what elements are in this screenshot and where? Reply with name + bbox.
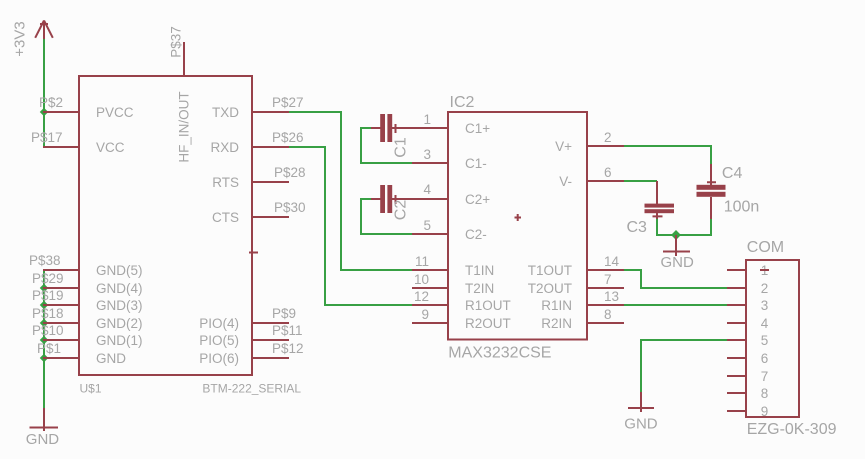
capacitor C4 <box>697 164 760 219</box>
pin P$12 PIO(6) <box>252 341 304 358</box>
connector COM EZG-0K-309 body <box>746 260 799 417</box>
svg-text:C2-: C2- <box>465 227 487 242</box>
wire C2 to C2- <box>361 199 412 234</box>
wire R1IN to COM pin3 <box>624 304 746 306</box>
svg-text:V+: V+ <box>555 139 572 154</box>
svg-text:T2IN: T2IN <box>465 281 494 296</box>
svg-text:P$18: P$18 <box>32 306 64 321</box>
svg-text:P$29: P$29 <box>32 271 64 286</box>
pin 14 T1OUT <box>587 254 624 270</box>
svg-text:P$19: P$19 <box>32 288 64 303</box>
svg-text:3: 3 <box>423 147 431 162</box>
svg-text:2: 2 <box>604 130 612 145</box>
connector pin 6 <box>727 351 768 366</box>
svg-text:R1OUT: R1OUT <box>465 298 511 313</box>
svg-text:C1-: C1- <box>465 156 487 171</box>
node junction GND(3) <box>40 301 48 309</box>
pin P$11 PIO(5) <box>252 323 303 340</box>
svg-text:RXD: RXD <box>210 140 239 155</box>
U1 pin labels right <box>199 105 239 366</box>
svg-text:8: 8 <box>604 307 612 322</box>
connector pin 7 <box>727 369 768 384</box>
svg-text:R2OUT: R2OUT <box>465 316 511 331</box>
svg-text:P$12: P$12 <box>272 341 304 356</box>
svg-text:T1IN: T1IN <box>465 263 494 278</box>
pin 5 C2- <box>412 218 448 234</box>
wire +3V3 to VCC <box>43 39 45 148</box>
pin 12 R1OUT <box>412 289 448 305</box>
node junction GND(4) <box>40 284 48 292</box>
wire V- to C3 <box>624 180 657 182</box>
svg-text:P$17: P$17 <box>31 130 63 145</box>
svg-text:P$11: P$11 <box>272 323 303 338</box>
svg-text:BTM-222_SERIAL: BTM-222_SERIAL <box>202 382 301 396</box>
svg-text:7: 7 <box>604 272 612 287</box>
svg-text:6: 6 <box>761 351 769 366</box>
ground GND right <box>624 392 658 433</box>
svg-text:13: 13 <box>604 289 619 304</box>
pin 11 T1IN <box>412 254 448 270</box>
svg-text:C1: C1 <box>393 137 410 158</box>
node junction GND(1) <box>40 336 48 344</box>
svg-text:MAX3232CSE: MAX3232CSE <box>448 345 551 362</box>
pin 3 C1- <box>412 147 448 163</box>
svg-text:COM: COM <box>747 239 784 256</box>
svg-text:C2+: C2+ <box>465 192 490 207</box>
pin 2 V+ <box>587 130 624 146</box>
U1 origin tick <box>249 252 258 254</box>
connector pin 3 <box>727 298 768 313</box>
node junction GND(2) <box>40 319 48 327</box>
capacitor C2 <box>371 185 412 220</box>
node P$2 junction <box>40 108 48 116</box>
IC2 pin labels right <box>528 139 572 331</box>
pin P$17 VCC <box>31 130 79 147</box>
pin P$28 RTS <box>252 165 306 182</box>
svg-text:P$37: P$37 <box>169 26 184 58</box>
pin 13 R1IN <box>587 289 624 305</box>
ground GND left <box>26 408 60 448</box>
pin P$37 HF antenna <box>169 26 185 76</box>
svg-text:100n: 100n <box>724 198 760 215</box>
svg-text:HF_IN/OUT: HF_IN/OUT <box>177 91 192 162</box>
pin P$1 GND <box>37 341 79 358</box>
pin 1 C1+ <box>412 112 448 128</box>
svg-text:GND: GND <box>661 254 695 271</box>
svg-text:P$27: P$27 <box>272 95 304 110</box>
svg-text:7: 7 <box>761 369 769 384</box>
svg-text:GND(3): GND(3) <box>96 298 143 313</box>
svg-text:P$38: P$38 <box>29 253 61 268</box>
pin P$9 PIO(4) <box>252 306 296 323</box>
svg-text:3: 3 <box>761 298 769 313</box>
connector pin 5 <box>727 333 768 348</box>
pin P$26 RXD <box>252 130 304 147</box>
IC IC2 MAX3232CSE body <box>448 112 587 340</box>
svg-text:+3V3: +3V3 <box>12 21 29 56</box>
svg-text:U$1: U$1 <box>80 382 102 396</box>
svg-text:PIO(6): PIO(6) <box>199 351 239 366</box>
pin 7 T2OUT <box>587 272 624 288</box>
svg-text:5: 5 <box>423 218 431 233</box>
svg-text:P$2: P$2 <box>39 95 63 110</box>
svg-text:P$9: P$9 <box>272 306 296 321</box>
wire C4 to GND junction <box>676 219 711 235</box>
power +3V3 <box>12 21 53 57</box>
node junction GND <box>40 354 48 362</box>
svg-text:GND(5): GND(5) <box>96 263 143 278</box>
svg-text:6: 6 <box>604 165 612 180</box>
connector pin 4 <box>727 316 769 331</box>
wire C3 to GND junction <box>657 219 676 235</box>
svg-text:11: 11 <box>415 254 429 269</box>
svg-text:C1+: C1+ <box>465 121 490 136</box>
svg-text:14: 14 <box>604 254 620 269</box>
svg-text:P$28: P$28 <box>274 165 306 180</box>
svg-text:2: 2 <box>761 281 769 296</box>
wire GND to COM pin5 <box>641 340 746 392</box>
pin 8 R2IN <box>587 307 624 323</box>
svg-text:PVCC: PVCC <box>96 105 134 120</box>
pin P$10 GND(1) <box>32 323 79 340</box>
svg-text:IC2: IC2 <box>450 94 475 111</box>
wire C1 to C1- <box>361 128 412 163</box>
pin 10 T2IN <box>412 272 448 288</box>
wire left GND bus <box>43 270 45 408</box>
node GND junction <box>671 230 681 240</box>
svg-text:4: 4 <box>423 182 431 197</box>
pin P$38 GND(5) <box>29 253 79 270</box>
svg-text:EZG-0K-309: EZG-0K-309 <box>747 421 837 438</box>
svg-text:P$1: P$1 <box>37 341 61 356</box>
IC U1 BTM-222 body <box>79 76 252 375</box>
connector pin 9 <box>727 404 768 419</box>
svg-text:C4: C4 <box>722 165 743 182</box>
connector pin 8 <box>727 386 768 401</box>
capacitor C1 <box>371 114 412 158</box>
svg-text:PIO(4): PIO(4) <box>199 316 239 331</box>
svg-text:9: 9 <box>421 307 429 322</box>
svg-text:GND: GND <box>96 351 126 366</box>
svg-text:T1OUT: T1OUT <box>528 263 572 278</box>
svg-text:P$10: P$10 <box>32 323 64 338</box>
IC2 origin cross <box>515 214 522 221</box>
pin P$27 TXD <box>252 95 304 112</box>
svg-text:GND: GND <box>624 416 658 433</box>
pin 4 C2+ <box>412 182 448 199</box>
svg-text:VCC: VCC <box>96 140 125 155</box>
svg-text:TXD: TXD <box>212 105 239 120</box>
wire RXD to R1OUT <box>289 147 412 305</box>
svg-text:GND: GND <box>26 431 60 448</box>
svg-text:GND(2): GND(2) <box>96 316 143 331</box>
wire TXD to T1IN <box>289 112 412 270</box>
capacitor C3 <box>627 181 675 236</box>
pin P$18 GND(2) <box>32 306 79 323</box>
svg-text:1: 1 <box>423 112 431 127</box>
connector pin 2 <box>727 281 768 296</box>
pin 6 V- <box>587 165 624 181</box>
svg-text:C3: C3 <box>627 219 648 236</box>
svg-text:T2OUT: T2OUT <box>528 281 572 296</box>
pin P$2 PVCC <box>39 95 79 112</box>
svg-text:R1IN: R1IN <box>541 298 572 313</box>
wire T1OUT to COM pin2 <box>624 270 746 288</box>
svg-text:RTS: RTS <box>212 175 239 190</box>
connector pin 1 <box>727 263 769 278</box>
svg-text:P$30: P$30 <box>274 200 306 215</box>
svg-text:PIO(5): PIO(5) <box>199 333 239 348</box>
pin P$30 CTS <box>252 200 306 217</box>
ground GND middle <box>661 235 695 271</box>
pin 9 R2OUT <box>412 307 448 323</box>
svg-text:4: 4 <box>761 316 769 331</box>
svg-text:CTS: CTS <box>212 210 239 225</box>
svg-text:GND(4): GND(4) <box>96 281 143 296</box>
svg-text:10: 10 <box>414 272 429 287</box>
svg-text:C2: C2 <box>393 200 410 221</box>
U1 pin labels left <box>96 105 143 366</box>
svg-text:R2IN: R2IN <box>541 316 572 331</box>
svg-text:5: 5 <box>761 333 769 348</box>
svg-text:8: 8 <box>761 386 769 401</box>
svg-text:9: 9 <box>761 404 769 419</box>
svg-text:GND(1): GND(1) <box>96 333 143 348</box>
svg-text:P$26: P$26 <box>272 130 304 145</box>
wire V+ to C4 <box>624 146 711 164</box>
svg-text:12: 12 <box>414 289 429 304</box>
pin P$19 GND(3) <box>32 288 79 305</box>
IC2 pin labels left <box>465 121 511 331</box>
pin P$29 GND(4) <box>32 271 79 288</box>
svg-text:V-: V- <box>559 174 572 189</box>
